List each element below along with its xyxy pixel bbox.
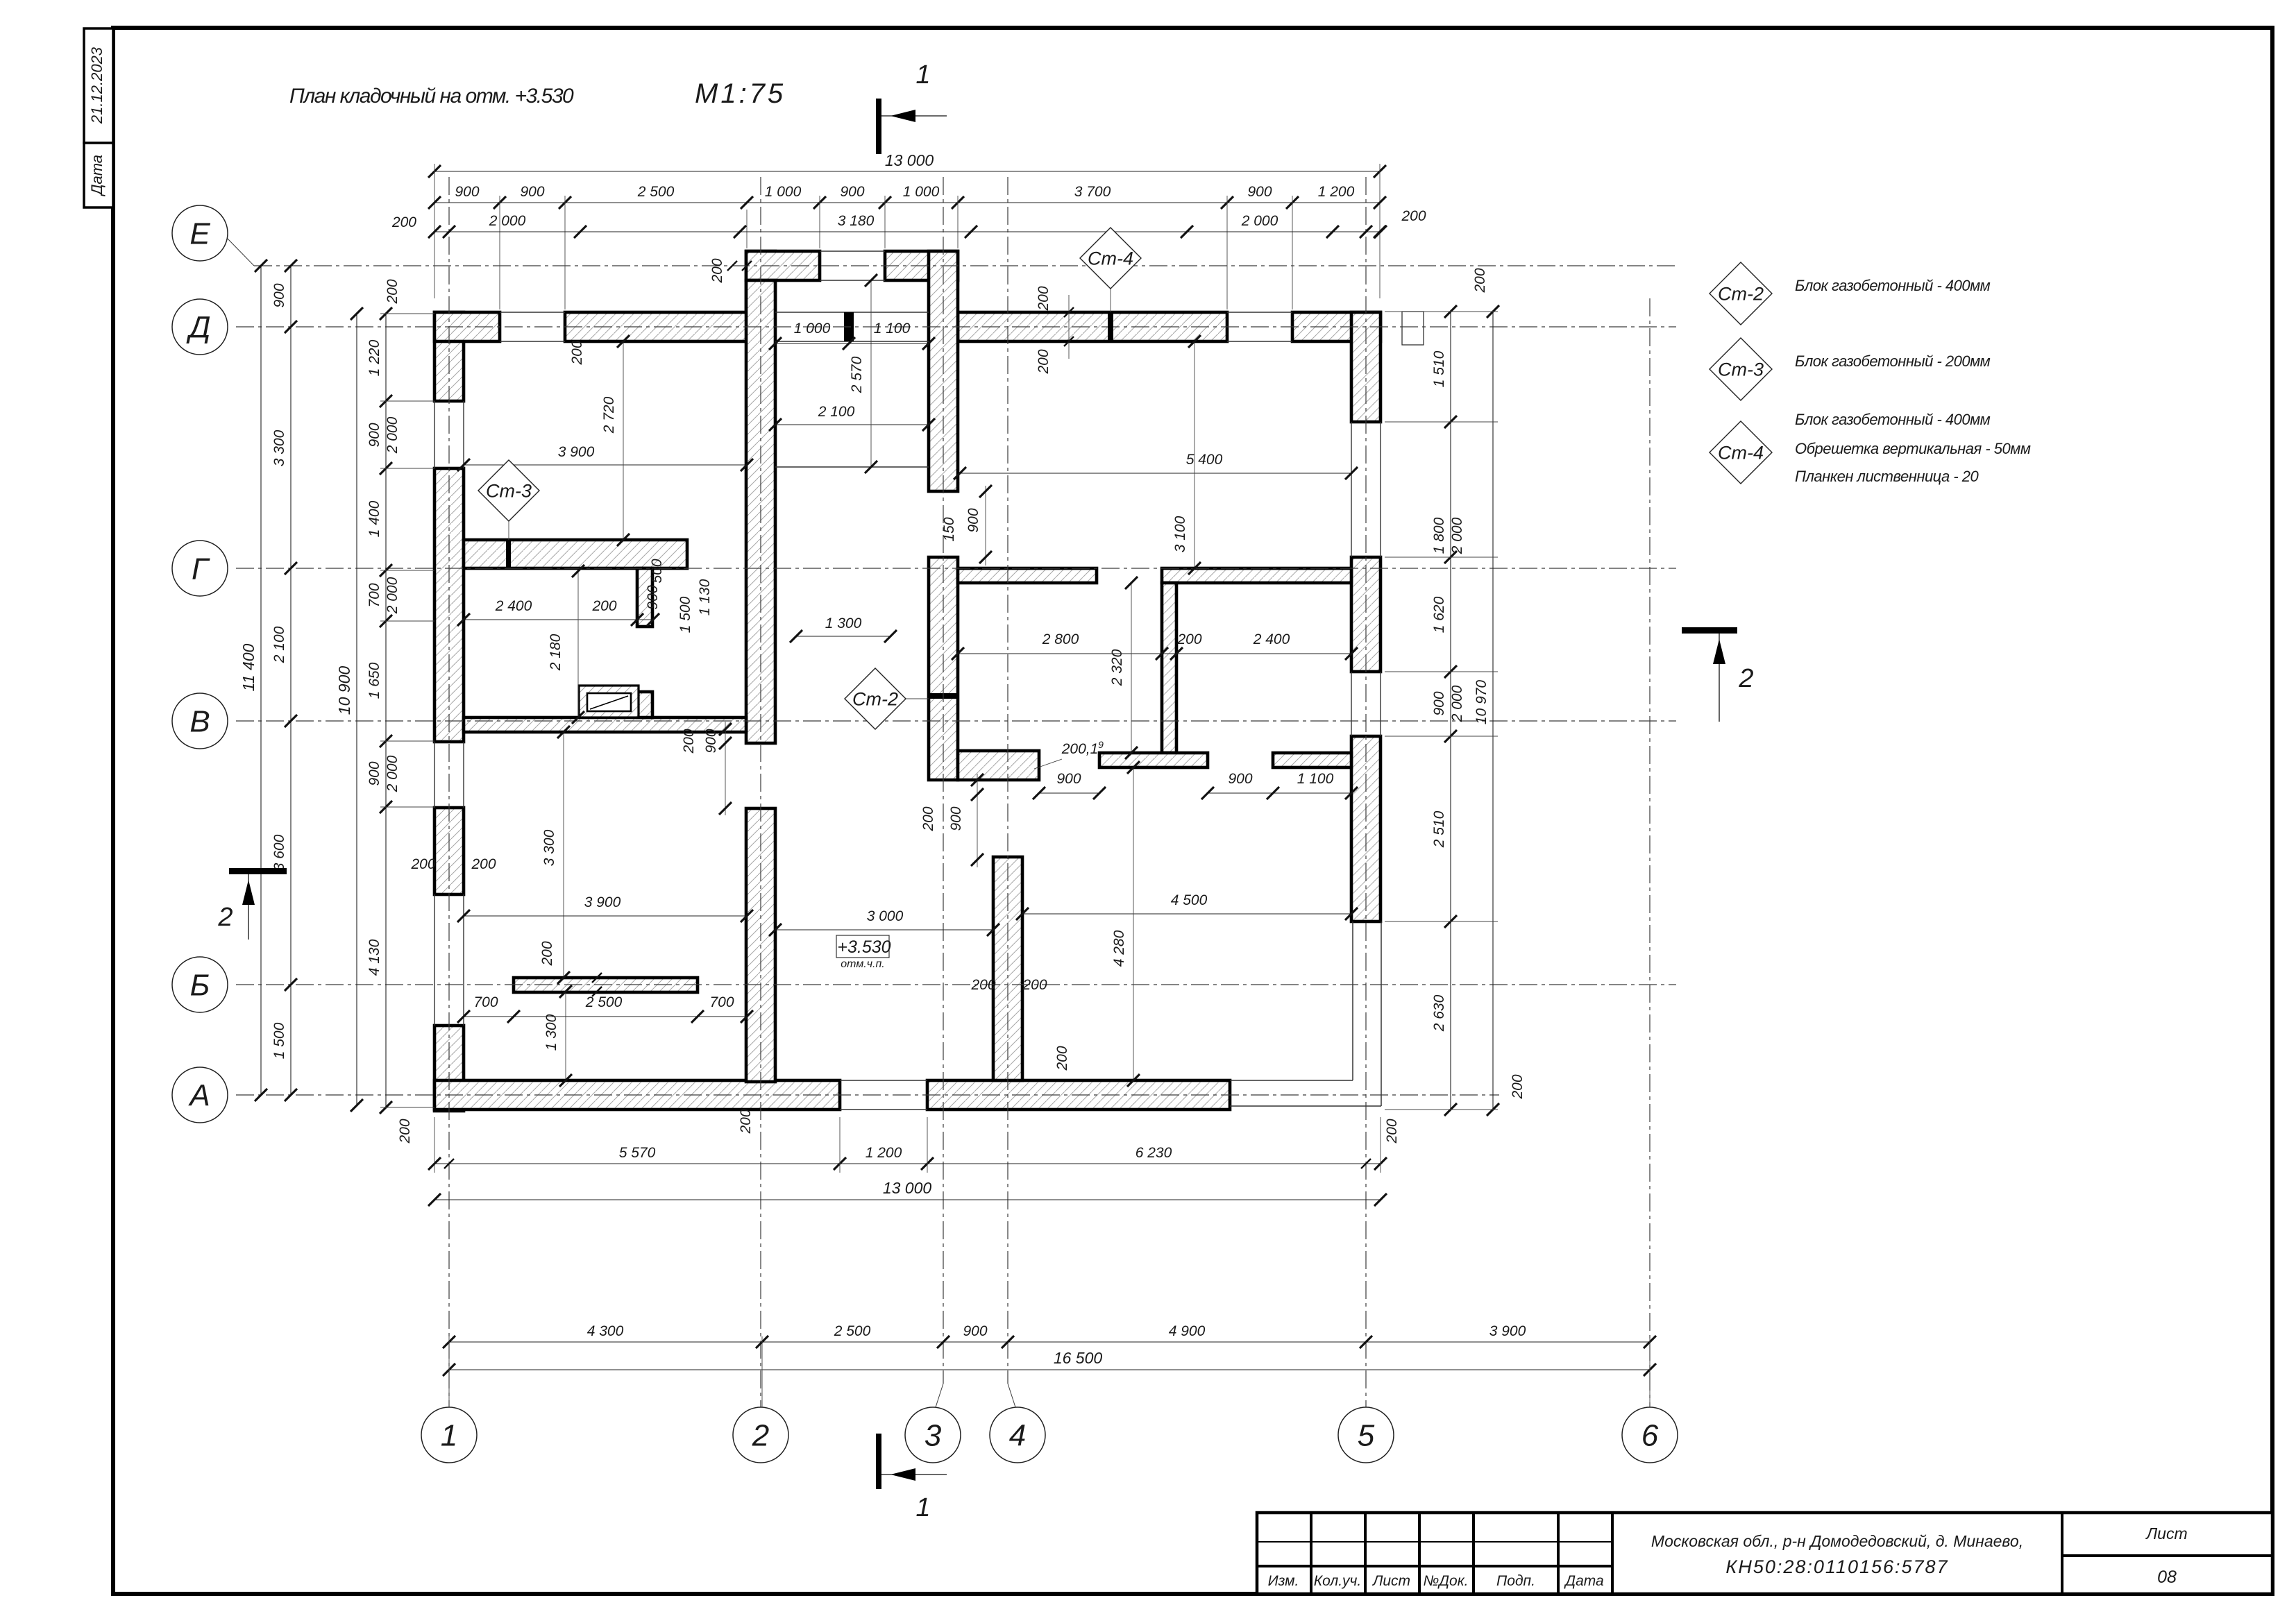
svg-text:3 180: 3 180 <box>838 213 875 229</box>
svg-text:1 300: 1 300 <box>825 615 862 631</box>
svg-text:Е: Е <box>189 216 210 250</box>
svg-text:2 100: 2 100 <box>271 626 287 663</box>
terrace thin walls bottom-right <box>1230 1080 1353 1081</box>
svg-text:200: 200 <box>1472 268 1488 293</box>
exterior wall: bottom (axis А) pieces <box>434 1080 840 1110</box>
svg-text:Ст-4: Ст-4 <box>1088 248 1133 269</box>
dim 150/900 door axis3 wall <box>985 486 986 566</box>
dim 3000 hall <box>775 929 993 931</box>
svg-text:1 650: 1 650 <box>366 662 382 699</box>
svg-text:900: 900 <box>1056 771 1081 787</box>
axis circle Б <box>172 957 228 1012</box>
entry opening bottom wall <box>840 1080 927 1081</box>
axis circle Е <box>172 205 228 261</box>
svg-text:4 900: 4 900 <box>1169 1323 1206 1339</box>
axis line 4 <box>1007 177 1008 1384</box>
right window chain <box>1450 312 1451 1110</box>
svg-text:Ст-2: Ст-2 <box>1718 283 1764 304</box>
svg-text:4 130: 4 130 <box>366 939 382 976</box>
svg-text:3: 3 <box>925 1418 942 1452</box>
svg-text:900: 900 <box>1431 691 1447 715</box>
exterior wall: left (axis 1) pieces <box>434 312 464 401</box>
svg-text:3 900: 3 900 <box>584 894 621 910</box>
svg-text:Дата: Дата <box>1564 1573 1603 1589</box>
svg-text:900: 900 <box>455 184 479 200</box>
dim 2570 bay depth <box>870 280 872 467</box>
section marker 2 right <box>1682 627 1737 634</box>
exterior wall: bay walls (axis Е) <box>746 251 775 312</box>
svg-text:1 510: 1 510 <box>1431 350 1447 387</box>
svg-text:2 500: 2 500 <box>637 184 675 200</box>
svg-text:3 000: 3 000 <box>867 908 904 924</box>
dim 2180 vertical <box>577 571 579 717</box>
svg-text:900: 900 <box>366 761 382 785</box>
svg-text:2: 2 <box>752 1418 769 1452</box>
extension lines from top chain to walls <box>499 210 500 309</box>
svg-text:Кол.уч.: Кол.уч. <box>1314 1573 1361 1589</box>
svg-text:150: 150 <box>941 517 957 541</box>
svg-text:2 000: 2 000 <box>385 577 400 614</box>
bay top window lines <box>820 250 885 252</box>
svg-text:200: 200 <box>539 941 555 966</box>
dim 4280 vertical <box>1133 767 1134 1080</box>
svg-text:Д: Д <box>186 310 211 344</box>
svg-text:Изм.: Изм. <box>1268 1573 1299 1589</box>
svg-text:2 000: 2 000 <box>385 416 400 454</box>
interior wall 200mm along Г right part <box>958 568 1097 583</box>
section marker 1 bottom <box>876 1434 881 1489</box>
joint line in axis3 wall <box>929 693 958 699</box>
svg-text:2 570: 2 570 <box>849 356 865 393</box>
svg-text:3 900: 3 900 <box>558 444 595 460</box>
kitchen island wall 2500 <box>514 978 698 992</box>
svg-text:900: 900 <box>520 184 544 200</box>
top chain row B <box>434 231 1380 232</box>
dim 5400 rooms width <box>960 473 1351 474</box>
svg-text:Г: Г <box>192 552 210 586</box>
exterior wall: right (axis 5) pieces <box>1351 312 1381 422</box>
svg-text:План кладочный на отм. +3.530: План кладочный на отм. +3.530 <box>289 85 574 108</box>
svg-text:2 320: 2 320 <box>1109 649 1125 686</box>
axis circle Д <box>172 299 228 355</box>
svg-text:200: 200 <box>391 214 416 230</box>
svg-text:1: 1 <box>441 1418 457 1452</box>
svg-text:700: 700 <box>366 583 382 607</box>
wall tag Ст-2 <box>875 699 876 729</box>
svg-text:1 000: 1 000 <box>794 321 831 337</box>
svg-text:900: 900 <box>1247 184 1272 200</box>
dim 2400/200 and 1300 middle-left rooms <box>464 619 653 620</box>
svg-text:отм.ч.п.: отм.ч.п. <box>841 958 884 970</box>
title block table <box>1257 1513 2272 1594</box>
section marker 2 left <box>229 868 287 874</box>
legend Ст-3 <box>1710 338 1772 400</box>
partition between 2800 and 2400 rooms <box>1162 583 1176 753</box>
svg-text:3 300: 3 300 <box>541 829 557 866</box>
svg-text:16 500: 16 500 <box>1054 1349 1103 1367</box>
svg-text:700: 700 <box>473 994 498 1010</box>
svg-text:900: 900 <box>703 729 719 753</box>
svg-text:200: 200 <box>569 340 585 365</box>
svg-text:6 230: 6 230 <box>1136 1145 1172 1161</box>
svg-text:11 400: 11 400 <box>239 643 258 691</box>
axis line В <box>236 720 1676 722</box>
svg-text:200: 200 <box>1022 977 1047 993</box>
interior wall 400mm left of Г <box>464 540 687 568</box>
svg-text:2 510: 2 510 <box>1431 810 1447 848</box>
bottom overall 13000 <box>434 1199 1381 1200</box>
left overall 11400 <box>260 266 262 1095</box>
svg-text:200: 200 <box>591 598 616 614</box>
exterior wall: top (axis Д) pieces <box>434 312 500 341</box>
svg-text:10 970: 10 970 <box>1474 680 1489 725</box>
dim 2720 vertical <box>623 341 624 540</box>
svg-text:200: 200 <box>970 977 995 993</box>
svg-text:200: 200 <box>709 258 725 283</box>
svg-text:2 180: 2 180 <box>548 634 564 671</box>
svg-text:1: 1 <box>915 60 930 90</box>
axis circle В <box>172 693 228 749</box>
axis line Г <box>236 568 1676 569</box>
svg-text:Ст-4: Ст-4 <box>1718 442 1764 463</box>
svg-text:2 400: 2 400 <box>495 598 532 614</box>
dim 3900 upper-left room <box>464 464 747 466</box>
svg-text:3 600: 3 600 <box>271 834 287 871</box>
svg-text:2 000: 2 000 <box>1449 517 1465 554</box>
svg-text:900: 900 <box>645 585 661 609</box>
svg-text:Блок газобетонный - 200мм: Блок газобетонный - 200мм <box>1795 352 1991 370</box>
top overall dimension 13000 <box>434 171 1380 172</box>
svg-text:2 400: 2 400 <box>1253 631 1290 647</box>
svg-text:4 300: 4 300 <box>587 1323 624 1339</box>
legend Ст-2 <box>1710 262 1772 325</box>
svg-text:1 400: 1 400 <box>366 500 382 537</box>
joint line in Г wall <box>506 540 511 568</box>
bottom chain 5570/1200/6230 <box>434 1163 1381 1164</box>
svg-text:1 000: 1 000 <box>903 184 940 200</box>
svg-text:900: 900 <box>1228 771 1252 787</box>
svg-text:КН50:28:0110156:5787: КН50:28:0110156:5787 <box>1725 1556 1948 1577</box>
top chain row A <box>434 202 1380 203</box>
svg-text:1 100: 1 100 <box>1297 771 1334 787</box>
svg-text:1 500: 1 500 <box>677 596 693 633</box>
bay-hall boundary line <box>775 466 929 468</box>
axis line 5 <box>1365 177 1367 1407</box>
svg-text:А: А <box>187 1078 210 1112</box>
dim 2800/200/2400 rooms <box>958 653 1351 654</box>
left overall 10900 <box>356 314 357 1105</box>
axis circle 3 <box>905 1407 961 1463</box>
svg-text:В: В <box>189 704 210 738</box>
axis circle А <box>172 1067 228 1123</box>
svg-text:№Док.: №Док. <box>1424 1573 1469 1589</box>
dim 2320 vertical <box>1131 583 1132 753</box>
svg-text:9: 9 <box>1098 739 1104 750</box>
svg-text:2 000: 2 000 <box>489 213 526 229</box>
svg-text:200,1: 200,1 <box>1061 741 1099 757</box>
svg-text:200: 200 <box>1036 349 1052 374</box>
svg-text:1 130: 1 130 <box>697 579 713 615</box>
axis line А <box>236 1094 1499 1096</box>
svg-text:200: 200 <box>1054 1046 1070 1071</box>
bottom overall 16500 <box>449 1369 1650 1370</box>
dim 200/900 door axis4 wall <box>977 774 978 867</box>
svg-text:Планкен лиственница - 20: Планкен лиственница - 20 <box>1795 468 1980 485</box>
axis line 6 <box>1649 298 1651 1407</box>
axis circle 6 <box>1622 1407 1678 1463</box>
svg-text:900: 900 <box>965 508 981 532</box>
axis circle 1 <box>421 1407 477 1463</box>
svg-text:+3.530: +3.530 <box>837 937 890 957</box>
svg-text:М1:75: М1:75 <box>695 78 786 109</box>
bay opening to hall: jambs and stub <box>775 312 929 313</box>
interior wall 200mm along В <box>464 717 746 732</box>
interior wall: central (axis 2) pieces <box>746 280 775 743</box>
svg-text:200: 200 <box>920 806 936 831</box>
lower chain 4300/2500/900/4900/3900 <box>449 1341 1650 1343</box>
svg-text:4 280: 4 280 <box>1111 930 1127 967</box>
axis line Е <box>254 265 1676 266</box>
window lines left wall <box>434 401 435 468</box>
dim 3300 kitchen vertical <box>563 732 564 978</box>
svg-text:08: 08 <box>2157 1567 2177 1587</box>
svg-text:2 000: 2 000 <box>1241 213 1278 229</box>
svg-text:1 100: 1 100 <box>874 321 911 337</box>
svg-text:700: 700 <box>709 994 734 1010</box>
svg-text:2 630: 2 630 <box>1431 994 1447 1032</box>
svg-text:3 300: 3 300 <box>271 430 287 466</box>
svg-text:1 300: 1 300 <box>543 1014 559 1051</box>
svg-text:2: 2 <box>217 903 233 932</box>
svg-text:Обрешетка вертикальная - 50мм: Обрешетка вертикальная - 50мм <box>1795 440 2031 457</box>
svg-text:2 500: 2 500 <box>834 1323 871 1339</box>
svg-text:900: 900 <box>366 423 382 447</box>
svg-text:5 570: 5 570 <box>619 1145 656 1161</box>
svg-text:2 500: 2 500 <box>585 994 623 1010</box>
svg-text:3 100: 3 100 <box>1172 516 1188 552</box>
svg-text:3 900: 3 900 <box>1489 1323 1526 1339</box>
axis line Д <box>236 326 1676 328</box>
partition between upper-left rooms <box>637 568 652 627</box>
svg-text:21.12.2023: 21.12.2023 <box>88 46 105 124</box>
svg-text:200: 200 <box>1176 631 1201 647</box>
svg-text:2: 2 <box>1738 664 1753 693</box>
svg-text:1 220: 1 220 <box>366 339 382 376</box>
svg-text:500: 500 <box>649 559 665 583</box>
svg-text:200: 200 <box>1384 1119 1400 1144</box>
svg-text:1 000: 1 000 <box>765 184 802 200</box>
svg-text:13 000: 13 000 <box>883 1179 932 1197</box>
svg-text:900: 900 <box>271 283 287 307</box>
svg-text:900: 900 <box>840 184 864 200</box>
dim 1300 vertical <box>565 992 566 1080</box>
section marker 1 top <box>876 99 881 154</box>
svg-text:4 500: 4 500 <box>1171 892 1208 908</box>
wall tag Ст-3 <box>508 520 509 540</box>
shaft rectangle near right wall <box>1402 312 1424 345</box>
svg-text:200: 200 <box>1510 1074 1526 1099</box>
svg-text:13 000: 13 000 <box>885 151 934 169</box>
axis circle 4 <box>990 1407 1045 1463</box>
svg-text:1 200: 1 200 <box>866 1145 902 1161</box>
svg-text:1: 1 <box>915 1493 930 1522</box>
axis line 1 <box>448 177 450 1407</box>
svg-text:6: 6 <box>1641 1418 1659 1452</box>
dim 4500 bottom-right room <box>1022 913 1351 915</box>
interior wall 200mm along Б right part <box>1099 753 1208 767</box>
svg-text:Лист: Лист <box>1371 1573 1410 1589</box>
dim 3100 vertical room <box>1194 341 1195 568</box>
door stub in bay opening <box>844 312 854 341</box>
svg-text:2 000: 2 000 <box>1449 685 1465 722</box>
svg-text:1 620: 1 620 <box>1431 596 1447 633</box>
svg-text:4: 4 <box>1009 1418 1026 1452</box>
dims doors in Б wall <box>1039 792 1099 794</box>
axis line 3 <box>943 177 944 1384</box>
svg-text:Ст-2: Ст-2 <box>852 688 898 709</box>
svg-text:1 800: 1 800 <box>1431 517 1447 554</box>
window lines right wall <box>1351 422 1352 557</box>
svg-text:Б: Б <box>190 968 210 1002</box>
axis circle 2 <box>733 1407 788 1463</box>
axis circle 5 <box>1338 1407 1394 1463</box>
svg-text:200: 200 <box>410 856 435 872</box>
svg-text:200: 200 <box>1401 208 1426 224</box>
axis line 2 <box>760 177 761 1407</box>
level mark +3.530 <box>836 935 889 958</box>
svg-text:5: 5 <box>1358 1418 1375 1452</box>
svg-text:Дата: Дата <box>88 155 105 197</box>
dim 200/900 door central wall <box>725 722 726 815</box>
svg-text:Подп.: Подп. <box>1496 1573 1535 1589</box>
svg-text:900: 900 <box>963 1323 987 1339</box>
svg-text:2 100: 2 100 <box>818 404 855 420</box>
svg-text:900: 900 <box>948 806 964 831</box>
left window chain <box>385 314 387 1107</box>
svg-text:1 200: 1 200 <box>1318 184 1355 200</box>
wall tag Ст-4 <box>1110 289 1111 312</box>
axis circle Г <box>172 541 228 596</box>
svg-text:200: 200 <box>1036 286 1052 311</box>
dim 1000/1100 bay opening <box>775 343 929 344</box>
left axis chain <box>290 266 292 1095</box>
svg-text:200: 200 <box>471 856 496 872</box>
interior wall: axis 3 with step <box>929 557 958 780</box>
right overall 10970 <box>1492 312 1494 1110</box>
svg-text:200: 200 <box>397 1119 413 1144</box>
left stamp box Дата <box>84 143 113 207</box>
window lines top wall <box>500 312 565 313</box>
svg-text:2 720: 2 720 <box>601 396 617 434</box>
fireplace block <box>579 686 639 717</box>
dim 2100 bay width <box>775 424 929 425</box>
left stamp box 21.12.2023 <box>84 28 113 143</box>
svg-text:10 900: 10 900 <box>335 666 353 715</box>
svg-text:1 500: 1 500 <box>271 1022 287 1059</box>
svg-text:Ст-3: Ст-3 <box>486 480 532 501</box>
dim 700/2500/700 <box>464 1016 747 1017</box>
svg-text:2 000: 2 000 <box>385 755 400 792</box>
svg-text:Лист: Лист <box>2145 1524 2187 1543</box>
legend Ст-4 <box>1710 421 1772 484</box>
svg-text:Блок газобетонный - 400мм: Блок газобетонный - 400мм <box>1795 411 1991 428</box>
svg-text:Ст-3: Ст-3 <box>1718 359 1764 380</box>
svg-text:200: 200 <box>681 729 697 754</box>
dim 3900 kitchen <box>464 915 747 917</box>
svg-text:5 400: 5 400 <box>1186 452 1223 468</box>
svg-text:3 700: 3 700 <box>1074 184 1111 200</box>
axis line Б <box>236 984 1676 985</box>
interior wall: axis 4 <box>993 857 1022 1080</box>
svg-text:200: 200 <box>385 279 400 304</box>
svg-text:200: 200 <box>738 1109 754 1134</box>
svg-text:Блок газобетонный - 400мм: Блок газобетонный - 400мм <box>1795 277 1991 294</box>
svg-text:Московская обл., р-н Домодедов: Московская обл., р-н Домодедовский, д. М… <box>1651 1532 2023 1550</box>
svg-text:2 800: 2 800 <box>1042 631 1079 647</box>
